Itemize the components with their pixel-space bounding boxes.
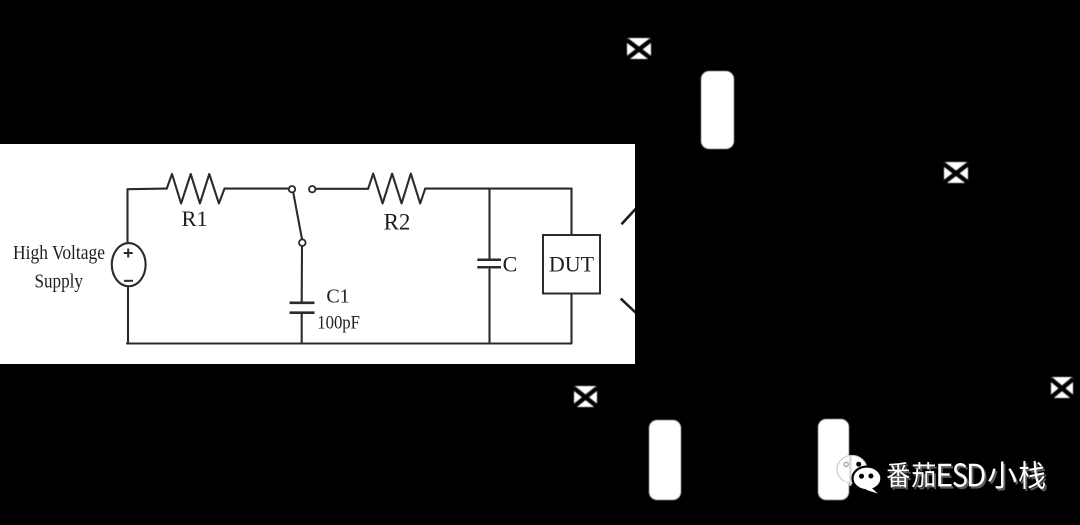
DUT branch wire upper [570,189,572,235]
wire switch to R2 [316,188,369,190]
svg-text:Supply: Supply [34,271,83,293]
placeholder bar top [701,71,734,149]
broken image icon 2 (right middle) [943,161,969,184]
wire source to bottom rail [127,288,129,344]
resistor R2 [368,174,425,204]
broken image icon 1 (top) [626,37,652,60]
wire R2 to right branch (top rail) [425,188,571,190]
capacitor C plates [477,260,501,267]
front chat bubble [853,467,882,491]
resistor R1 [167,174,225,203]
wire C1 to bottom rail [301,314,303,343]
capacitor C1 plates [290,303,315,313]
placeholder bar bottom left [649,420,681,500]
svg-text:C1: C1 [326,286,349,308]
switch pole node [299,239,306,246]
wechat logo icon [830,450,886,500]
svg-text:R1: R1 [181,206,207,231]
svg-text:C: C [503,252,518,277]
bottom rail wire [127,342,572,344]
svg-text:100pF: 100pF [317,312,360,333]
voltage source plus sign [124,249,133,258]
arrow stroke bottom right [621,299,638,315]
arrow stroke top right [622,208,637,225]
broken image icon 3 (bottom left of center) [573,385,598,408]
broken image icon 4 (bottom far right) [1050,376,1074,399]
svg-text:High Voltage: High Voltage [13,242,105,264]
svg-text:R2: R2 [384,210,411,235]
wire top-left segment [128,189,167,243]
wire R1 to switch [225,188,289,190]
back bubble right eye [856,462,861,467]
back bubble left eye (ring) [844,462,848,466]
switch arm [293,192,302,239]
capacitor C branch wire lower [488,269,490,343]
seam at bar edge [849,456,851,486]
voltage source minus sign [124,280,133,282]
DUT box [543,235,600,294]
back chat bubble [837,455,881,493]
switch contact node right [309,186,315,192]
placeholder bar bottom right [818,419,849,500]
capacitor C branch wire upper [488,189,490,259]
wire switch pole to C1 [301,246,303,301]
front bubble eyes [859,474,864,479]
circuit image panel (white) [0,144,635,364]
voltage source V1 circle [112,243,146,286]
DUT branch wire lower [570,294,572,344]
svg-text:DUT: DUT [549,252,595,277]
switch contact node left [289,186,295,192]
account name text 番茄ESD小栈 [880,455,1080,500]
